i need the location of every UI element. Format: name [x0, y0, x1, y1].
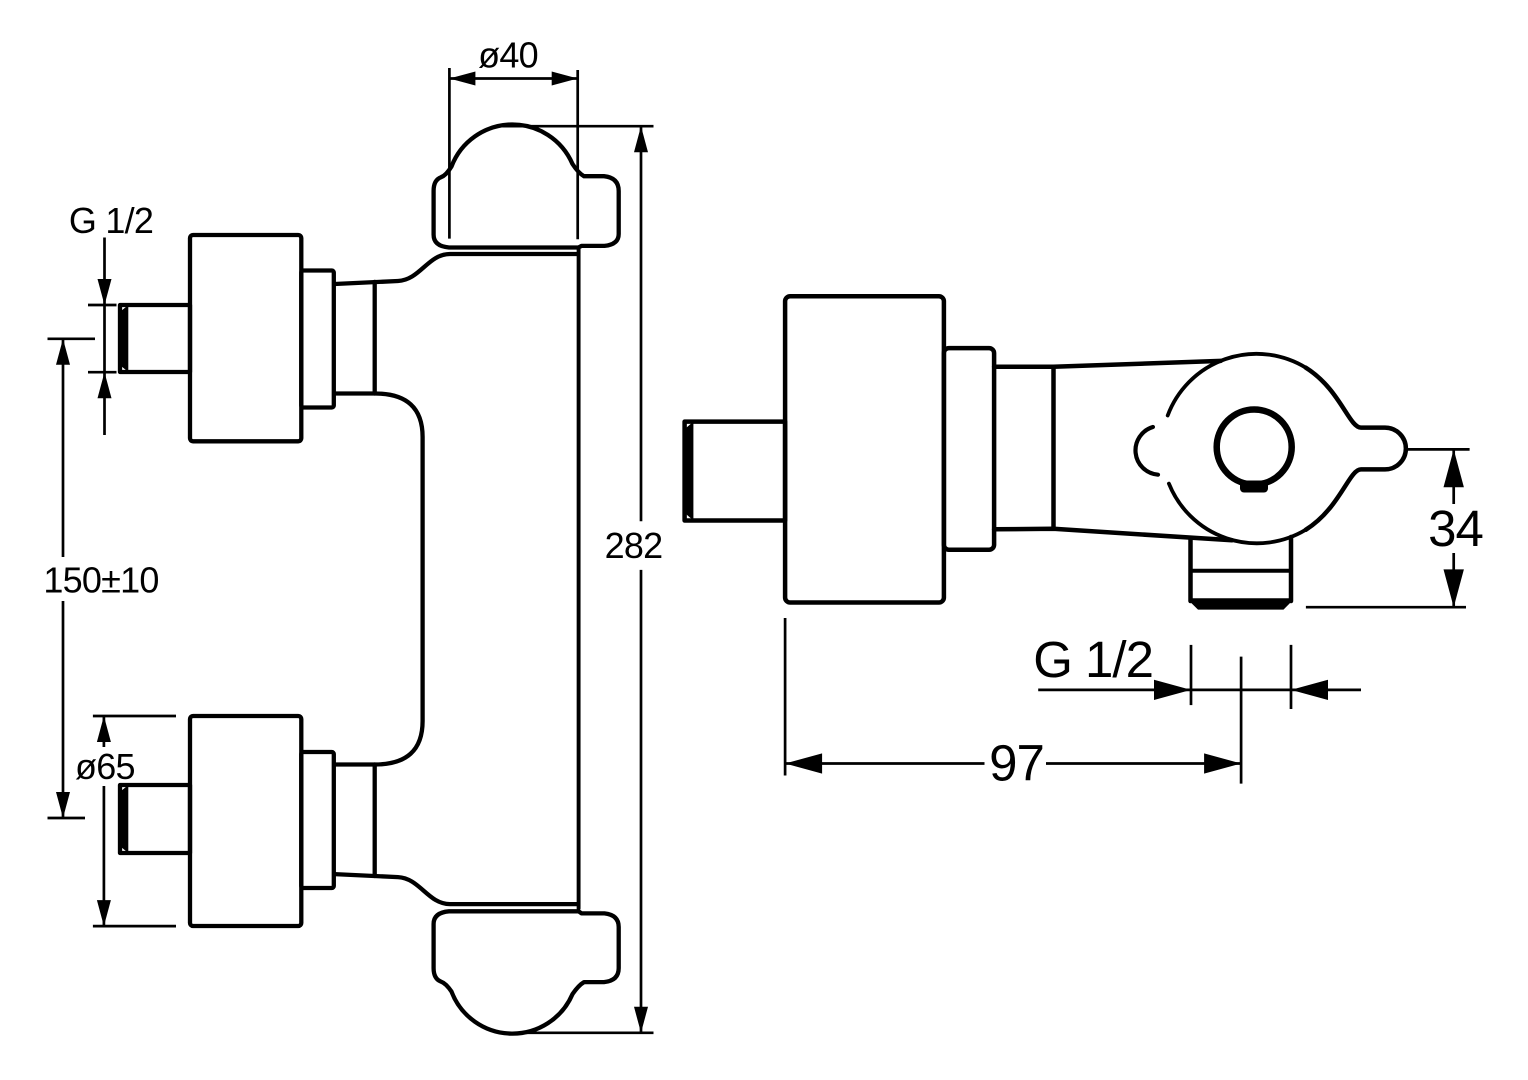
svg-text:282: 282 — [605, 525, 663, 566]
svg-text:ø65: ø65 — [75, 746, 135, 787]
svg-text:ø40: ø40 — [478, 35, 538, 76]
svg-text:34: 34 — [1428, 500, 1483, 557]
svg-text:150±10: 150±10 — [43, 560, 158, 601]
svg-text:97: 97 — [989, 735, 1044, 792]
svg-text:G 1/2: G 1/2 — [1033, 631, 1153, 688]
svg-text:G 1/2: G 1/2 — [69, 200, 153, 241]
